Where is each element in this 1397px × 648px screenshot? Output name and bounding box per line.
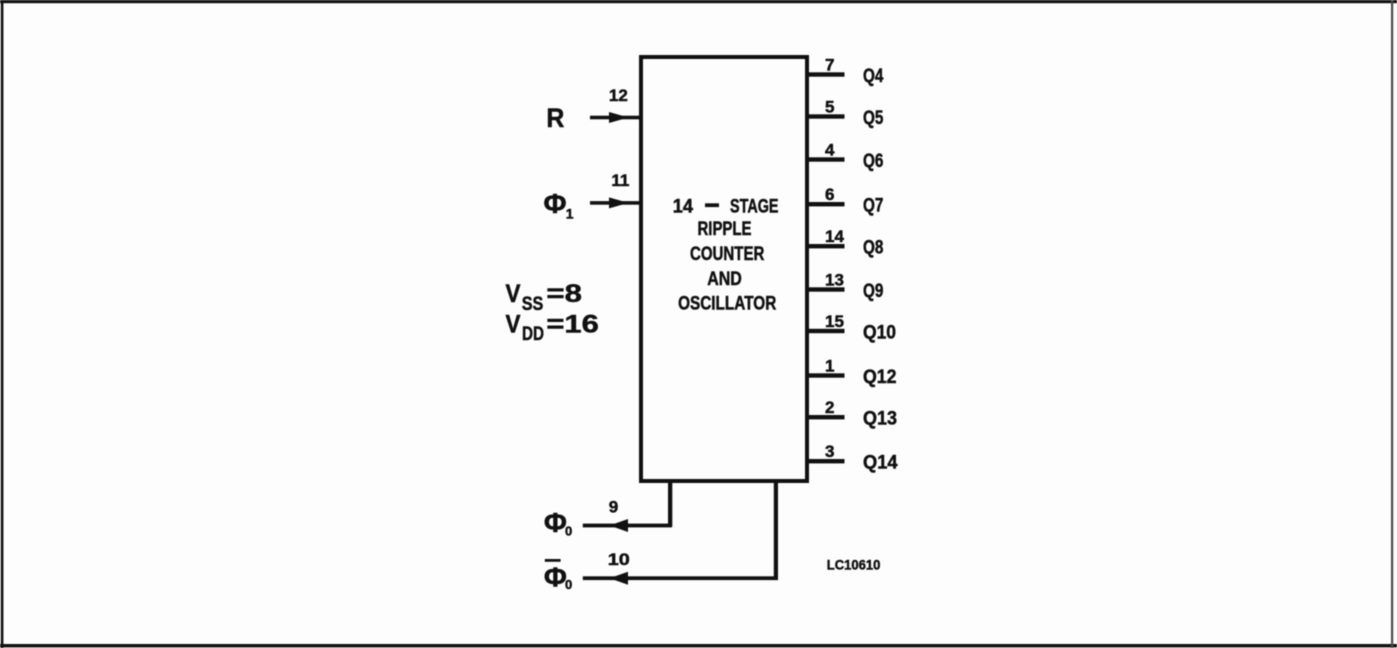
svg-text:RIPPLE: RIPPLE [698,218,752,240]
svg-text:Φ: Φ [544,188,567,219]
svg-text:Q6: Q6 [863,151,883,172]
svg-text:V: V [506,280,521,308]
svg-text:Q7: Q7 [863,196,883,217]
svg-text:7: 7 [825,56,834,75]
svg-text:14: 14 [825,227,844,246]
svg-text:STAGE: STAGE [730,195,779,217]
svg-text:AND: AND [707,268,742,290]
svg-text:4: 4 [825,141,835,160]
svg-text:Q8: Q8 [863,238,883,259]
svg-text:1: 1 [825,357,834,376]
svg-text:10: 10 [608,550,630,569]
svg-text:SS: SS [522,294,544,315]
svg-text:DD: DD [522,324,544,345]
svg-text:11: 11 [611,171,629,190]
svg-text:Q9: Q9 [863,281,883,302]
svg-text:Q4: Q4 [863,66,884,87]
svg-text:12: 12 [609,86,628,105]
svg-text:1: 1 [566,205,574,221]
svg-text:2: 2 [825,398,834,417]
svg-text:0: 0 [565,577,572,592]
svg-text:Q13: Q13 [863,409,897,430]
svg-text:5: 5 [825,98,834,117]
svg-text:9: 9 [609,497,618,516]
svg-text:6: 6 [825,185,834,204]
svg-text:Q12: Q12 [863,367,897,388]
svg-text:=8: =8 [546,280,582,308]
svg-text:V: V [506,311,521,339]
svg-text:LC10610: LC10610 [827,556,881,572]
svg-text:COUNTER: COUNTER [690,243,765,265]
svg-text:0: 0 [565,523,572,538]
svg-text:Q14: Q14 [863,453,898,474]
svg-text:14: 14 [673,195,693,217]
svg-text:Φ: Φ [544,507,567,538]
svg-text:Φ: Φ [544,562,567,593]
svg-text:13: 13 [825,271,844,290]
svg-text:OSCILLATOR: OSCILLATOR [678,293,776,315]
svg-text:3: 3 [825,442,834,461]
svg-text:15: 15 [825,312,844,331]
svg-text:Q10: Q10 [863,323,896,344]
svg-text:R: R [546,103,564,133]
svg-text:=16: =16 [546,311,598,339]
svg-text:Q5: Q5 [863,108,884,129]
